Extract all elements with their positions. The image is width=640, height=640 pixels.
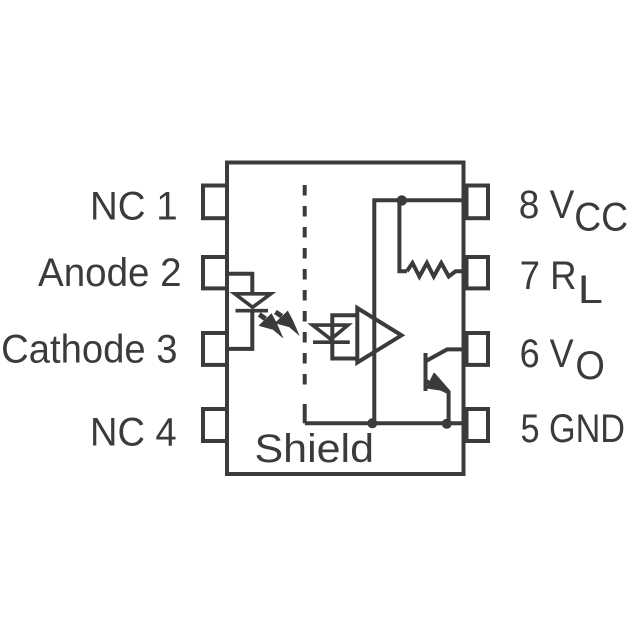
- junction dot rail-emitter: [442, 419, 452, 429]
- svg-text:8 V: 8 V: [519, 183, 575, 227]
- pin 3 box: [203, 333, 227, 365]
- resistor RL zigzag: [407, 263, 464, 277]
- LED D1 cathode bar: [236, 309, 269, 313]
- transistor Q1 base bar: [424, 353, 428, 391]
- photodiode D2 triangle: [313, 325, 349, 339]
- svg-text:Shield: Shield: [255, 427, 375, 471]
- resistor RL branch wire: [399, 202, 407, 271]
- LED D1 triangle: [235, 294, 271, 308]
- svg-text:Anode 2: Anode 2: [38, 251, 182, 295]
- pin 4 box: [203, 409, 227, 441]
- wire LED cathode to pin3: [227, 311, 252, 349]
- pin 7 box: [467, 257, 489, 288]
- svg-text:NC 1: NC 1: [90, 185, 178, 229]
- light arrow 1: [259, 314, 283, 339]
- photodiode D2 cathode bar: [313, 340, 350, 344]
- pin 5 box: [467, 409, 489, 441]
- ground rail to pin 5: [305, 421, 464, 425]
- svg-text:Cathode 3: Cathode 3: [1, 328, 177, 372]
- shield to ground wire: [303, 404, 307, 423]
- photodiode loop wire: [332, 315, 357, 358]
- op-amp A1: [357, 308, 401, 363]
- pin 6 box: [467, 333, 489, 365]
- svg-text:O: O: [575, 344, 605, 388]
- transistor Q1 collector to pin 6: [426, 349, 464, 361]
- pin 1 box: [203, 186, 227, 219]
- Vcc wire vertical + top rail to pin 8: [374, 200, 463, 423]
- pin 8 box: [467, 186, 489, 219]
- svg-text:6 V: 6 V: [520, 332, 574, 376]
- svg-text:7 R: 7 R: [520, 254, 577, 298]
- transistor Q1 emitter arrow: [427, 374, 449, 391]
- junction dot rail-Vcc wire: [367, 418, 377, 428]
- transistor Q1 emitter: [426, 381, 449, 424]
- svg-text:CC: CC: [574, 196, 628, 240]
- IC body U1: [227, 163, 464, 475]
- shield dashed line: [303, 185, 307, 392]
- light arrow 2: [275, 311, 299, 336]
- junction dot Vcc: [397, 195, 407, 205]
- wire anode pin2 to LED: [227, 274, 252, 294]
- pin 2 box: [203, 257, 227, 288]
- svg-text:L: L: [578, 268, 603, 312]
- svg-text:5 GND: 5 GND: [521, 407, 626, 451]
- svg-text:NC 4: NC 4: [90, 411, 177, 455]
